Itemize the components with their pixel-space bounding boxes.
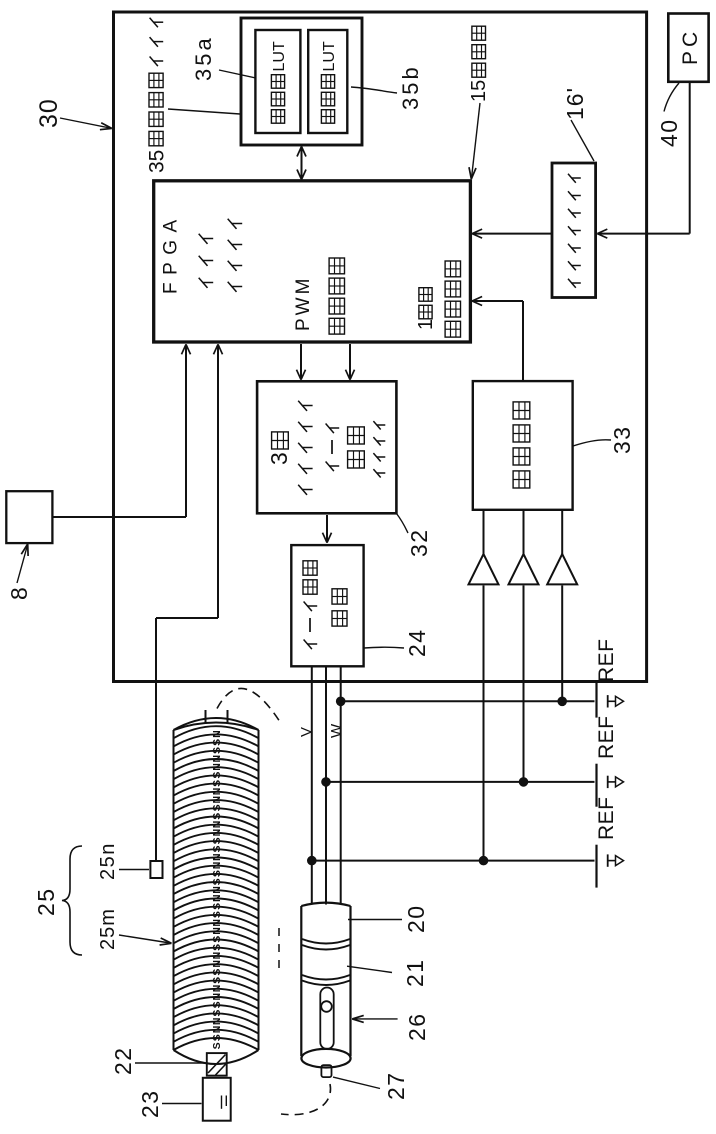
svg-text:N: N bbox=[211, 894, 223, 902]
svg-text:N: N bbox=[211, 985, 223, 993]
svg-text:N: N bbox=[211, 788, 223, 796]
svg-text:35b: 35b bbox=[398, 64, 423, 110]
svg-text:S: S bbox=[211, 804, 223, 811]
svg-text:N: N bbox=[211, 763, 223, 771]
box 35 nonvolatile memory bbox=[241, 18, 362, 145]
svg-text:N: N bbox=[211, 821, 223, 829]
arrow PWM from FPGA to box 32 bbox=[300, 344, 302, 379]
coil left end cap bbox=[174, 1038, 259, 1050]
wire buffer 1 to phase detection 33 bbox=[483, 510, 485, 554]
REF terminal 2 (phase V reference) bbox=[595, 764, 597, 807]
terminal 25n center tap square bbox=[150, 861, 162, 878]
svg-text:8: 8 bbox=[6, 587, 32, 600]
svg-text:N: N bbox=[211, 952, 223, 960]
svg-text:S: S bbox=[211, 977, 223, 984]
motor phase wire W from drive circuit to rod bbox=[340, 666, 342, 904]
label maikon (microcontroller) bbox=[228, 282, 237, 292]
box U15 FPGA/microcontroller bbox=[154, 181, 471, 342]
leader arrow 26 to rod surface bbox=[354, 1018, 398, 1020]
svg-text:S: S bbox=[211, 813, 223, 820]
svg-text:S: S bbox=[211, 944, 223, 951]
leader arrow 30 to outer box bbox=[60, 118, 110, 128]
leader arrow 8 to box bbox=[17, 545, 28, 583]
svg-text:S: S bbox=[211, 878, 223, 885]
junction dot phase U tap bbox=[307, 856, 317, 866]
box 40 PC bbox=[668, 14, 708, 82]
junction dot tap3 sense bbox=[479, 856, 489, 866]
REF terminal 3 (phase U reference) bbox=[595, 845, 597, 888]
svg-text:N: N bbox=[211, 862, 223, 870]
svg-text:S: S bbox=[211, 837, 223, 844]
tap wire from phase W to REF terminal 1 bbox=[341, 700, 595, 702]
rod right end cap bbox=[301, 903, 350, 906]
leader line for 20 bbox=[348, 919, 402, 921]
svg-text:S: S bbox=[211, 870, 223, 877]
label rojikku (logic) bbox=[373, 469, 380, 477]
brace grouping 25m and 25n bbox=[62, 846, 82, 955]
leader line for 35 bbox=[168, 109, 240, 114]
junction dot tap2 sense bbox=[519, 777, 529, 787]
motor phase wire V from drive circuit to rod bbox=[325, 666, 327, 904]
box 8 host/sensor block bbox=[6, 491, 52, 543]
wire terminal 25n to FPGA bbox=[155, 618, 157, 861]
rod left end cap ellipse bbox=[301, 1049, 350, 1068]
svg-text:1: 1 bbox=[415, 319, 437, 330]
junction dot phase V tap bbox=[321, 777, 331, 787]
leader line for 21 bbox=[347, 966, 392, 972]
svg-text:S: S bbox=[211, 1010, 223, 1017]
svg-text:S: S bbox=[211, 911, 223, 918]
label kairo (circuit) bbox=[332, 611, 347, 626]
buffer amplifier triangle 1 bbox=[469, 554, 499, 584]
box 24 motor drive circuit bbox=[291, 545, 363, 666]
svg-text:24: 24 bbox=[404, 628, 430, 657]
svg-text:22: 22 bbox=[110, 1046, 136, 1075]
svg-text:21: 21 bbox=[402, 958, 428, 987]
wire box 8 to FPGA bbox=[52, 516, 186, 518]
leader line for 35b bbox=[351, 87, 397, 93]
svg-text:N: N bbox=[211, 886, 223, 894]
sense wire tap1 to buffer 3 bbox=[561, 586, 563, 702]
wire interface 16' to FPGA bbox=[472, 233, 552, 235]
svg-text:S: S bbox=[211, 747, 223, 754]
label intafeisu (interface) bbox=[568, 279, 576, 288]
shaft end 22 hatched block bbox=[207, 1053, 227, 1076]
svg-text:N: N bbox=[211, 927, 223, 935]
arrow box 32 to box 24 bbox=[326, 515, 328, 542]
svg-text:PC: PC bbox=[679, 28, 702, 65]
svg-text:S: S bbox=[211, 903, 223, 910]
REF terminal 1 (phase W reference) bbox=[595, 682, 597, 718]
junction dot tap1 sense bbox=[557, 697, 567, 707]
box 35a voltage value LUT bbox=[255, 30, 300, 133]
phantom dashed line right of coil bbox=[278, 920, 280, 968]
svg-text:N: N bbox=[211, 993, 223, 1001]
sensor slot 26 stadium opening bbox=[320, 988, 333, 1050]
svg-text:S: S bbox=[211, 739, 223, 746]
leader line for 40 bbox=[664, 83, 679, 112]
arrow direction signal from FPGA to box 32 bbox=[349, 344, 351, 379]
box 32 three-phase sensorless motor control logic bbox=[257, 381, 396, 513]
box 33 phase detection bbox=[473, 381, 573, 510]
box 16' interface bbox=[552, 163, 596, 298]
wire PC to interface 16' bbox=[689, 82, 691, 234]
svg-text:N: N bbox=[211, 919, 223, 927]
svg-text:15: 15 bbox=[468, 80, 490, 102]
label hoko shingo (direction signal) bbox=[329, 318, 344, 334]
label hoseiyo LUT bbox=[321, 110, 334, 124]
leader line for 35a bbox=[219, 70, 256, 78]
svg-text:REF: REF bbox=[595, 716, 618, 760]
svg-text:S: S bbox=[211, 780, 223, 787]
svg-text:25n: 25n bbox=[97, 842, 119, 880]
svg-text:N: N bbox=[211, 730, 223, 738]
svg-text:25: 25 bbox=[33, 887, 59, 916]
svg-text:N: N bbox=[211, 829, 223, 837]
svg-text:23: 23 bbox=[137, 1089, 163, 1118]
svg-text:25m: 25m bbox=[97, 908, 119, 950]
buffer amplifier triangle 3 bbox=[547, 554, 577, 584]
svg-text:PWM: PWM bbox=[293, 276, 314, 331]
sense wire tap3 to buffer 1 bbox=[483, 586, 485, 861]
svg-text:27: 27 bbox=[383, 1071, 409, 1100]
svg-text:35a: 35a bbox=[191, 35, 216, 81]
phantom dashed arc near coil right end bbox=[217, 688, 281, 723]
svg-text:LUT: LUT bbox=[321, 41, 338, 71]
label matawa (or) bbox=[199, 278, 208, 288]
svg-text:W: W bbox=[328, 723, 345, 738]
motor phase wire U from drive circuit to rod bbox=[311, 666, 313, 904]
wire buffer 2 to phase detection 33 bbox=[523, 510, 525, 554]
label mota kudo (motor drive) bbox=[304, 640, 312, 650]
thread marks inside rod 23 bbox=[221, 1096, 223, 1109]
svg-text:3: 3 bbox=[266, 452, 292, 465]
leader arrow 15 to FPGA corner bbox=[472, 103, 481, 178]
svg-text:N: N bbox=[211, 755, 223, 763]
svg-text:S: S bbox=[211, 936, 223, 943]
svg-text:32: 32 bbox=[406, 528, 432, 557]
leader arrow 25m to coil bbox=[119, 935, 170, 943]
svg-text:V: V bbox=[298, 727, 315, 737]
label seigyo (control) bbox=[348, 451, 365, 468]
svg-text:40: 40 bbox=[656, 118, 682, 147]
svg-text:N: N bbox=[211, 796, 223, 804]
rod 20 outer tube body bbox=[300, 906, 302, 1056]
svg-text:FPGA: FPGA bbox=[161, 212, 182, 294]
box 35b correction LUT bbox=[308, 30, 347, 133]
svg-text:S: S bbox=[211, 1042, 223, 1049]
rod section separator 2 bbox=[302, 981, 350, 986]
wire box 33 to FPGA one-rotation detection signal bbox=[522, 301, 524, 381]
svg-text:N: N bbox=[211, 960, 223, 968]
leader line for 25n bbox=[119, 869, 149, 871]
label sensaresu (sensorless) bbox=[298, 485, 307, 495]
leader line for 23 bbox=[162, 1103, 202, 1105]
tap wire from phase V to REF terminal 2 bbox=[326, 781, 595, 783]
leader line for 16' bbox=[571, 120, 594, 161]
svg-text:16': 16' bbox=[562, 87, 588, 120]
buffer amplifier triangle 2 bbox=[509, 554, 539, 584]
phantom dashed cable curve 27 bbox=[281, 1084, 331, 1115]
leader line for 27 bbox=[333, 1077, 380, 1088]
sense wire tap2 to buffer 2 bbox=[523, 586, 525, 782]
leader line for 22 bbox=[135, 1062, 206, 1064]
svg-text:N: N bbox=[211, 1026, 223, 1034]
label iso kenshutsu (phase detection) bbox=[513, 471, 530, 488]
leader line for 33 bbox=[573, 440, 611, 446]
svg-text:S: S bbox=[211, 1034, 223, 1041]
svg-text:33: 33 bbox=[609, 425, 635, 454]
label kenshutsu shingo (detection signal) bbox=[445, 321, 460, 337]
svg-text:30: 30 bbox=[35, 98, 63, 128]
rod section separator 1 bbox=[302, 945, 350, 950]
svg-text:REF: REF bbox=[595, 639, 618, 683]
pin 27 cable exit bbox=[321, 1065, 331, 1077]
svg-text:N: N bbox=[211, 1018, 223, 1026]
wire buffer 3 to phase detection 33 bbox=[561, 510, 563, 554]
tap wire from phase U to REF terminal 3 bbox=[312, 860, 595, 862]
svg-text:20: 20 bbox=[403, 904, 429, 933]
svg-text:26: 26 bbox=[404, 1012, 430, 1041]
label mota (motor) bbox=[326, 462, 334, 472]
svg-text:LUT: LUT bbox=[271, 41, 288, 71]
rod 23 threaded shaft bbox=[203, 1078, 231, 1121]
svg-text:35: 35 bbox=[146, 150, 169, 173]
svg-text:S: S bbox=[211, 845, 223, 852]
double arrow FPGA to memory 35 bbox=[301, 147, 303, 179]
outer box 30 system enclosure bbox=[114, 12, 647, 682]
svg-text:S: S bbox=[211, 772, 223, 779]
sensor element circle inside slot bbox=[321, 1001, 332, 1012]
junction dot phase W tap bbox=[336, 697, 346, 707]
coil lead wires bbox=[205, 710, 207, 724]
label denatsuchi LUT bbox=[271, 110, 284, 124]
svg-text:REF: REF bbox=[595, 797, 618, 841]
leader line for 24 bbox=[364, 646, 404, 649]
svg-text:S: S bbox=[211, 1001, 223, 1008]
svg-text:N: N bbox=[211, 853, 223, 861]
leader line for 32 bbox=[397, 514, 409, 534]
svg-text:S: S bbox=[211, 969, 223, 976]
